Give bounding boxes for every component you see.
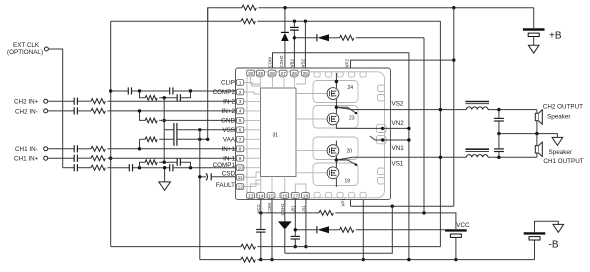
svg-text:LS1: LS1 (301, 205, 306, 214)
wire VS2 sense pin25 (304, 21, 306, 70)
node VS1 / filter cap (497, 156, 500, 159)
module substrate outline (gray) (247, 72, 386, 198)
svg-text:Speaker: Speaker (547, 114, 570, 121)
svg-text:GND: GND (221, 118, 235, 125)
svg-text:13: 13 (248, 193, 254, 199)
pin boxes top 30-25 (247, 70, 309, 77)
gray bond wires left (244, 83, 261, 187)
resistor COMP2 branch (140, 91, 178, 100)
node pin15 / bottom rail (270, 258, 273, 261)
node VN2 pad (381, 127, 384, 130)
node COMP1 left (138, 166, 141, 169)
wire COM pin28 to VN rail (273, 53, 409, 71)
svg-text:Speaker: Speaker (549, 149, 572, 156)
resistor row B (319, 210, 333, 215)
wire feedback rail y=21.2 (111, 20, 441, 22)
wire pin17 LB1 (294, 199, 296, 247)
resistor VAA filter (140, 137, 208, 149)
resistor COMP1 branch (140, 160, 178, 168)
transistor Q19 (327, 167, 350, 185)
node +B rail / CSH2 diode (283, 6, 286, 9)
inductor L2 (465, 102, 489, 110)
svg-text:15: 15 (268, 193, 274, 199)
svg-text:2: 2 (239, 90, 242, 96)
node VCC / bottom rail (454, 258, 457, 261)
label CH1 OUTPUT (543, 149, 583, 165)
svg-text:VB2: VB2 (289, 58, 294, 67)
wire mid line (499, 134, 558, 138)
terminal CH2 IN+ (14, 99, 74, 106)
svg-text:VS1: VS1 (392, 161, 404, 168)
svg-text:(OPTIONAL): (OPTIONAL) (7, 49, 43, 56)
resistor row1 (241, 244, 255, 249)
diode bootstrap ch2 (points left) (294, 34, 339, 41)
wire VS1 output row (353, 156, 537, 158)
svg-text:VP2: VP2 (345, 58, 350, 67)
gray bond wires top (251, 77, 306, 88)
wire VSS row (164, 129, 236, 131)
gray FET islands (313, 81, 358, 186)
resistor CH1- input (91, 146, 236, 151)
node mid / speakers (535, 132, 538, 135)
wire VN rail x=408.9 (408, 53, 410, 260)
node pad drop / bottom rail (362, 258, 365, 261)
pin labels left (213, 80, 236, 190)
svg-text:IN+2: IN+2 (222, 108, 236, 115)
inductor L1 (465, 149, 489, 157)
battery VCC (445, 222, 470, 260)
node VAA / IN+1 row (138, 147, 141, 150)
svg-text:VAA: VAA (223, 137, 236, 144)
labels module outputs (392, 101, 405, 168)
wire CSH1 riser and row2 (285, 206, 393, 253)
transistor Q23 (327, 113, 355, 125)
node COMP2 branch (163, 96, 166, 99)
svg-text:9: 9 (239, 156, 242, 162)
diode CSH1 (pin16, points down) (278, 199, 292, 254)
svg-text:14: 14 (258, 193, 264, 199)
capacitor COMP1 a (129, 164, 169, 171)
wire VP2 feed (351, 60, 454, 68)
svg-text:25: 25 (303, 71, 309, 77)
pin boxes left 1-12 (236, 80, 243, 191)
capacitor output filter ch2 (494, 110, 504, 134)
wire VS2 output row (353, 109, 537, 111)
node VN1 pad (381, 138, 384, 141)
node VS1 / feedback drop (439, 156, 442, 159)
resistor on feedback rail (241, 19, 255, 24)
capacitor COMP2 b (170, 87, 237, 94)
svg-text:17: 17 (293, 193, 299, 199)
svg-text:26: 26 (292, 71, 298, 77)
node pin17 / row1 (294, 245, 297, 248)
svg-text:VN1: VN1 (392, 145, 405, 152)
svg-text:FAULT: FAULT (216, 182, 235, 189)
node VS2 / filter cap (497, 108, 500, 111)
wire COMP1 row from EXT CLK (63, 167, 74, 169)
capacitor CH1+ input (74, 155, 91, 162)
capacitor COMP1 branch (177, 159, 190, 168)
label CH2 OUTPUT (543, 103, 583, 120)
node bottom rail / VN rail (407, 258, 410, 261)
svg-text:EXT CLK: EXT CLK (13, 42, 40, 49)
node left feedback / IN-1 row (109, 157, 112, 160)
svg-text:CH2 OUTPUT: CH2 OUTPUT (543, 103, 583, 110)
capacitor COMP1 input (74, 164, 91, 171)
wire pin15 COM (271, 199, 273, 260)
IC module outline U1 (236, 68, 391, 200)
svg-text:8: 8 (239, 147, 242, 153)
wire bottom diode row (295, 229, 317, 231)
node row B / pin14 (259, 211, 262, 214)
terminal EXT CLK (7, 42, 63, 168)
node VB2 / bootstrap diode row (293, 36, 296, 39)
svg-text:CSH2: CSH2 (279, 55, 284, 68)
wire half-bridge ch1 internal (335, 136, 409, 187)
svg-text:16: 16 (282, 193, 288, 199)
svg-text:-B: -B (549, 240, 559, 251)
resistor IN+2 to GND (140, 111, 237, 123)
wire row B (VCC rail) (261, 213, 456, 229)
svg-text:COMP1: COMP1 (213, 162, 236, 169)
wire VP1 feed / row A (351, 200, 454, 207)
svg-text:VP1: VP1 (340, 197, 345, 206)
svg-text:+B: +B (549, 31, 562, 42)
node COMP1 branch (163, 161, 166, 164)
svg-text:4: 4 (239, 109, 242, 115)
terminal CH1 IN+ (14, 156, 74, 163)
resistor bootstrap ch2 (340, 35, 425, 40)
svg-text:IN-2: IN-2 (223, 99, 235, 106)
node IN+2 row (138, 109, 141, 112)
diode CSH2 to +B rail (281, 8, 289, 71)
node COMP2 right (189, 89, 192, 92)
resistor bottom rail (241, 257, 255, 262)
svg-text:IN+1: IN+1 (222, 146, 236, 153)
node VN1 stub / VN rail (407, 138, 410, 141)
node VSS / V200 (198, 128, 201, 131)
svg-text:COM: COM (268, 57, 273, 68)
labels bottom pins (rotated) (256, 197, 346, 215)
svg-text:CLIP: CLIP (221, 80, 235, 87)
svg-text:CH1 OUTPUT: CH1 OUTPUT (543, 158, 583, 165)
capacitor CH2- input (74, 107, 91, 114)
wire bottom rail row3 (200, 259, 535, 261)
wire pin18 LS1 (305, 199, 307, 247)
resistor COMP1 input (91, 165, 129, 170)
svg-text:CH2 IN-: CH2 IN- (15, 108, 38, 115)
svg-text:18: 18 (303, 193, 309, 199)
capacitor output filter ch1 (494, 134, 504, 158)
ground symbol COMP1 (159, 166, 171, 190)
svg-text:6: 6 (239, 128, 242, 134)
wire pin14 VCC (260, 199, 262, 260)
transistor Q20 (327, 145, 352, 157)
speaker CH1 (535, 134, 542, 158)
wire VSS drop x=199.8 (199, 130, 201, 260)
capacitor COMP2 a (128, 87, 169, 94)
capacitor CSD (200, 173, 237, 180)
terminal CH1 IN- (15, 146, 74, 153)
speaker CH2 (535, 110, 542, 134)
svg-text:27: 27 (281, 71, 287, 77)
svg-text:30: 30 (248, 71, 254, 77)
capacitor VCC decouple (256, 230, 265, 233)
node pin18 / row1 (304, 245, 307, 248)
gray bond wires bottom (250, 177, 306, 193)
svg-text:VS2: VS2 (300, 58, 305, 67)
node pin17 / diode row (294, 228, 297, 231)
svg-text:CSD: CSD (222, 170, 236, 177)
capacitor VSS-VAA (tall) (174, 123, 177, 146)
svg-text:7: 7 (239, 137, 242, 143)
wire module pad drop x=363.3 (362, 200, 364, 260)
wire COMP2 row y=91 (111, 90, 129, 92)
node pin14 / bottom rail (259, 258, 262, 261)
battery -B (524, 221, 564, 259)
wire comp common vertical x=164.2 (163, 98, 165, 162)
node comp common / GND row (163, 119, 166, 122)
svg-text:23: 23 (349, 116, 355, 122)
node feedback/VB2 (293, 20, 296, 23)
label VP2 (345, 58, 350, 67)
wire row1 (111, 246, 441, 248)
resistor CH2- input (91, 108, 236, 113)
capacitor VB2 bootstrap (290, 21, 299, 70)
svg-text:31: 31 (273, 133, 279, 139)
driver die 31 (261, 88, 297, 177)
node +B rail / VP riser (452, 6, 455, 9)
svg-text:VSS: VSS (222, 127, 235, 134)
wire left feedback vertical x=110.7 (110, 21, 112, 246)
svg-text:CH2 IN+: CH2 IN+ (14, 99, 39, 106)
svg-text:CSH1: CSH1 (280, 203, 285, 216)
wire VP riser x=453.8 (453, 8, 455, 207)
chassis mid (552, 137, 563, 145)
node row B / bootstrap drop (422, 211, 425, 214)
capacitor LB1 (291, 236, 300, 239)
transistor Q24 (327, 85, 353, 100)
capacitor CH1- input (74, 145, 91, 152)
node CSD / V200 (198, 175, 201, 178)
wire bootstrap drop x=424 (423, 38, 425, 213)
capacitor COMP2 branch (177, 91, 190, 101)
node row A / CSH1 riser (391, 205, 394, 208)
wire +B filter vertical x=207.7 (207, 8, 209, 140)
node VAA / +B filter vertical (206, 138, 209, 141)
wire VN2 stub (383, 127, 409, 129)
node mid / caps (497, 132, 500, 135)
svg-text:10: 10 (238, 166, 244, 172)
pin boxes bottom 13-18 (247, 193, 310, 200)
svg-text:VCC: VCC (456, 222, 470, 229)
svg-text:24: 24 (348, 85, 354, 91)
svg-text:20: 20 (347, 148, 353, 154)
svg-text:5: 5 (239, 118, 242, 124)
svg-text:11: 11 (238, 175, 243, 181)
svg-text:19: 19 (345, 179, 351, 185)
node VS2 / feedback drop (439, 108, 442, 111)
wire half-bridge ch2 internal (335, 73, 383, 128)
diode bootstrap ch1 (points left) (317, 226, 340, 233)
resistor on +B rail (242, 5, 256, 10)
capacitor CH2+ input (74, 98, 91, 105)
svg-text:COM: COM (267, 203, 272, 214)
node VP riser / VP2 (452, 58, 455, 61)
svg-text:12: 12 (238, 184, 244, 190)
gray gate wires (296, 94, 328, 173)
svg-text:COMP2: COMP2 (213, 89, 236, 96)
svg-text:CH1 IN-: CH1 IN- (15, 146, 38, 153)
svg-text:VN2: VN2 (392, 120, 405, 127)
svg-text:LB1: LB1 (290, 205, 295, 214)
node VAA / V200 (198, 138, 201, 141)
svg-text:28: 28 (270, 71, 276, 77)
battery +B (523, 8, 562, 54)
svg-text:29: 29 (258, 71, 264, 77)
node VN2 stub / VN rail (407, 127, 410, 130)
wire feedback drop x=440.4 (439, 21, 441, 246)
capacitor COMP1 b (170, 164, 237, 171)
svg-text:3: 3 (239, 99, 242, 105)
resistor bootstrap ch1 (340, 227, 446, 232)
resistor CH1+ input (91, 156, 236, 161)
terminal CH2 IN- (15, 108, 74, 115)
resistor CH2+ input (91, 99, 236, 104)
labels top pins (rotated) (268, 55, 306, 68)
node COMP1 right (189, 166, 192, 169)
node feedback/VS2 pin25 (304, 20, 307, 23)
wire +B top rail y=7.7 (208, 8, 534, 22)
svg-text:CH1 IN+: CH1 IN+ (14, 156, 39, 163)
node left feedback / COMP2 (109, 89, 112, 92)
node COMP2 left (138, 89, 141, 92)
svg-text:VS2: VS2 (392, 101, 404, 108)
svg-text:1: 1 (239, 80, 242, 86)
